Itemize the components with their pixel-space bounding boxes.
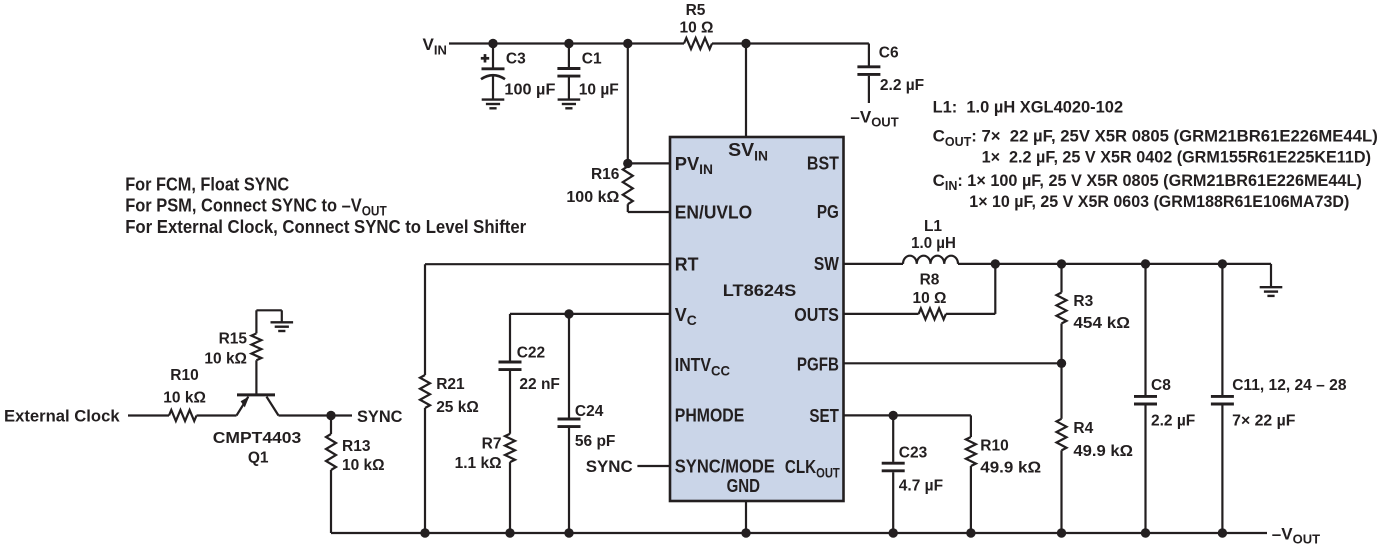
resistor R3 (1057, 264, 1131, 363)
capacitor C3 (481, 44, 556, 100)
note PSM line (125, 195, 387, 218)
ground above Q1 (271, 322, 294, 331)
capacitor C6 (857, 44, 924, 104)
resistor R10 10k (163, 367, 236, 421)
svg-text:R5: R5 (686, 2, 706, 19)
node SYNC at IC (586, 457, 633, 476)
ground under C3 (482, 100, 505, 109)
capacitor C8 (1134, 264, 1195, 533)
note CIN spec line 2 (969, 192, 1349, 211)
note FCM line (125, 174, 289, 194)
resistor R15 (204, 331, 261, 368)
junction top rail at SVIN (741, 39, 750, 48)
wire top VIN rail (449, 42, 869, 44)
wire R8 to SW junction (946, 264, 995, 314)
svg-text:10 Ω: 10 Ω (913, 290, 947, 307)
svg-text:10 µF: 10 µF (579, 82, 619, 99)
resistor R21 (420, 375, 479, 533)
wire OUTS stub (844, 313, 919, 315)
svg-text:4.7 µF: 4.7 µF (899, 478, 943, 495)
junction top rail at C3 (488, 39, 497, 48)
wire SVIN drop (745, 44, 747, 138)
svg-text:C1: C1 (582, 50, 602, 67)
resistor R5 (680, 2, 714, 49)
node External Clock label (4, 406, 120, 425)
wire SW rail (958, 263, 1271, 265)
svg-text:–VOUT: –VOUT (850, 107, 898, 129)
svg-text:R16: R16 (591, 166, 620, 183)
svg-text:10 kΩ: 10 kΩ (342, 457, 385, 474)
capacitor C23 (882, 415, 943, 533)
svg-text:1× 2.2 µF, 25 V X5R 0402 (GRM: 1× 2.2 µF, 25 V X5R 0402 (GRM155R61E225K… (982, 148, 1371, 167)
note CIN spec line 1 (933, 171, 1362, 193)
svg-text:R4: R4 (1073, 420, 1093, 437)
svg-text:R8: R8 (920, 272, 940, 289)
svg-text:56 pF: 56 pF (575, 433, 615, 450)
node -VOUT under C6 (850, 107, 898, 129)
wire RT to R21 column (425, 264, 670, 375)
wire from top rail to PVIN (628, 44, 670, 164)
junction bottom rail at C24 (564, 528, 573, 537)
wire Q1 collector to SYNC (279, 414, 353, 416)
svg-text:R10: R10 (170, 367, 198, 384)
note External Clock line (125, 217, 526, 237)
svg-text:1× 10 µF, 25 V X5R 0603 (GRM18: 1× 10 µF, 25 V X5R 0603 (GRM188R61E106MA… (969, 192, 1349, 211)
svg-text:10 kΩ: 10 kΩ (163, 389, 206, 406)
svg-text:CMPT4403: CMPT4403 (213, 430, 302, 447)
pin SYNC/MODE label (675, 457, 775, 477)
wire bottom -VOUT rail (331, 532, 1267, 534)
pin INTVCC label (675, 355, 730, 379)
resistor R13 (326, 416, 385, 534)
junction SYNC node (326, 411, 335, 420)
node -VOUT bottom label (1272, 524, 1320, 546)
capacitor C11 bank (1211, 264, 1347, 533)
svg-text:1.0 µH: 1.0 µH (911, 235, 956, 252)
svg-text:COUT: 7× 22 µF, 25V X5R 0805: COUT: 7× 22 µF, 25V X5R 0805 (GRM21BR61E… (933, 127, 1378, 149)
svg-text:External Clock: External Clock (4, 406, 120, 425)
node VIN input label (423, 35, 447, 57)
junction bottom rail at R10b (966, 528, 975, 537)
pin EN/UVLO label (675, 203, 752, 223)
svg-text:PHMODE: PHMODE (675, 406, 745, 426)
pin PHMODE label (675, 406, 745, 426)
junction SW at R3 (1057, 259, 1066, 268)
svg-text:10 kΩ: 10 kΩ (204, 351, 247, 368)
svg-text:For PSM, Connect SYNC to –VOUT: For PSM, Connect SYNC to –VOUT (125, 195, 387, 218)
capacitor C24 (558, 314, 616, 533)
pin PVIN label (675, 154, 713, 177)
svg-text:25 kΩ: 25 kΩ (436, 399, 479, 416)
svg-text:C11, 12, 24 – 28: C11, 12, 24 – 28 (1232, 377, 1347, 394)
inductor L1 (903, 218, 958, 264)
svg-text:49.9 kΩ: 49.9 kΩ (1073, 443, 1133, 460)
pin SVIN label (728, 140, 768, 164)
note COUT spec line 2 (982, 148, 1371, 167)
svg-text:R13: R13 (342, 438, 371, 455)
svg-text:454 kΩ: 454 kΩ (1073, 315, 1130, 332)
svg-text:Q1: Q1 (248, 449, 269, 466)
junction VC at C24 (564, 309, 573, 318)
svg-text:SET: SET (809, 406, 839, 426)
svg-text:C6: C6 (879, 44, 899, 61)
svg-text:R21: R21 (436, 376, 465, 393)
svg-text:L1: 1.0 µH XGL4020-102: L1: 1.0 µH XGL4020-102 (933, 98, 1124, 117)
junction bottom rail at R4 (1057, 528, 1066, 537)
pin BST label (807, 153, 839, 173)
note COUT spec line 1 (933, 127, 1378, 149)
wire SYNC stub (637, 465, 670, 467)
svg-text:GND: GND (727, 476, 760, 496)
junction PGFB at R3/R4 (1057, 359, 1066, 368)
svg-text:1.1 kΩ: 1.1 kΩ (455, 455, 502, 472)
svg-text:PGFB: PGFB (797, 355, 839, 375)
resistor R4 (1057, 363, 1134, 533)
svg-text:49.9 kΩ: 49.9 kΩ (980, 459, 1041, 476)
svg-text:SYNC: SYNC (586, 457, 633, 476)
pin GND label (727, 476, 760, 496)
wire SW to ground (1270, 264, 1272, 287)
svg-text:For External Clock, Connect SY: For External Clock, Connect SYNC to Leve… (125, 217, 526, 237)
svg-text:R10: R10 (980, 438, 1008, 455)
svg-text:OUTS: OUTS (794, 305, 839, 325)
svg-text:100 kΩ: 100 kΩ (566, 189, 619, 206)
pin SET label (809, 406, 839, 426)
node SYNC label (357, 407, 403, 426)
svg-text:R7: R7 (482, 436, 502, 453)
junction SW at C11 (1218, 259, 1227, 268)
ground at SW right (1260, 287, 1283, 296)
capacitor C1 (557, 44, 618, 100)
junction bottom rail at C23 (889, 528, 898, 537)
pin PGFB label (797, 355, 839, 375)
junction top rail at PVIN drop (623, 39, 632, 48)
svg-text:CIN: 1× 100 µF, 25 V X5R 0805: CIN: 1× 100 µF, 25 V X5R 0805 (GRM21BR61… (933, 171, 1362, 193)
svg-text:R3: R3 (1073, 293, 1093, 310)
svg-text:C23: C23 (899, 445, 928, 462)
svg-text:R15: R15 (219, 331, 248, 348)
wire external clock to R10 (128, 414, 169, 416)
junction PVIN node (623, 159, 632, 168)
pin OUTS label (794, 305, 839, 325)
op-amp U1 LT8624S regulator body (670, 137, 844, 501)
resistor R8 (913, 272, 947, 320)
svg-text:RT: RT (675, 255, 699, 275)
junction bottom rail at C8 (1141, 528, 1150, 537)
pin SW label (814, 254, 839, 274)
resistor R16 (566, 163, 632, 212)
svg-text:22 nF: 22 nF (519, 376, 559, 393)
svg-text:LT8624S: LT8624S (723, 281, 797, 300)
svg-text:7× 22 µF: 7× 22 µF (1232, 413, 1295, 430)
wire GND pin drop (745, 501, 747, 533)
junction top rail at C1 (564, 39, 573, 48)
svg-text:2.2 µF: 2.2 µF (1151, 413, 1195, 430)
svg-text:C24: C24 (575, 403, 604, 420)
wire SET stub (844, 414, 971, 416)
junction SW at C8 (1141, 259, 1150, 268)
wire R15 to ground (256, 310, 281, 333)
pin RT label (675, 255, 699, 275)
ground under C1 (558, 100, 581, 109)
junction bottom rail at R21 (420, 528, 429, 537)
svg-text:C3: C3 (506, 50, 526, 67)
pin CLKOUT label (785, 457, 841, 480)
svg-text:2.2 µF: 2.2 µF (880, 77, 924, 94)
svg-text:C22: C22 (517, 345, 545, 362)
svg-text:10 Ω: 10 Ω (680, 19, 714, 36)
pin PG label (817, 202, 839, 222)
junction bottom rail at C11 (1218, 528, 1227, 537)
svg-text:SW: SW (814, 254, 839, 274)
wire VC stub (510, 313, 670, 315)
junction bottom rail at R7 (505, 528, 514, 537)
wire PGFB stub (844, 362, 1062, 364)
svg-text:PG: PG (817, 202, 839, 222)
svg-text:100 µF: 100 µF (504, 82, 555, 99)
svg-text:SYNC: SYNC (357, 407, 403, 426)
svg-text:For FCM, Float SYNC: For FCM, Float SYNC (125, 174, 289, 194)
resistor R10 49.9k (966, 415, 1041, 533)
note L1 spec (933, 98, 1124, 117)
svg-text:–VOUT: –VOUT (1272, 524, 1320, 546)
svg-text:L1: L1 (924, 218, 942, 235)
svg-text:SYNC/MODE: SYNC/MODE (675, 457, 775, 477)
capacitor C22 (499, 314, 560, 434)
junction SW at R8 bypass (991, 259, 1000, 268)
IC name LT8624S (723, 281, 797, 300)
transistor Q1 CMPT4403 (213, 360, 302, 466)
pin VC label (675, 305, 697, 328)
svg-text:BST: BST (807, 153, 839, 173)
svg-text:EN/UVLO: EN/UVLO (675, 203, 752, 223)
wire R16 to EN/UVLO (628, 211, 670, 213)
svg-text:C8: C8 (1151, 377, 1171, 394)
wire SW stub (844, 263, 904, 265)
svg-text:VIN: VIN (423, 35, 447, 57)
resistor R7 (455, 434, 515, 533)
junction bottom rail at GND (741, 528, 750, 537)
junction SET at C23 (889, 411, 898, 420)
